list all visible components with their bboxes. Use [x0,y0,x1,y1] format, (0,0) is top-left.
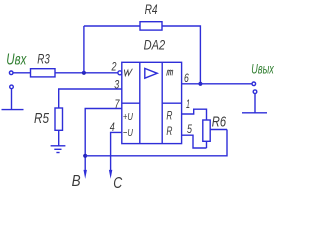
svg-text:R3: R3 [37,52,50,67]
wire pin 1 to R6 top [182,109,207,120]
wire input ground [11,89,13,110]
svg-text:2: 2 [111,60,117,74]
resistor R4 [140,22,162,30]
svg-text:5: 5 [187,122,192,136]
wire R6 bottom lead [206,141,208,148]
resistor R3 [31,69,56,77]
svg-text:R5: R5 [34,110,50,127]
svg-text:Uвх: Uвх [6,51,27,68]
input ground terminal [10,85,14,89]
ground under R5 bar1 [51,145,66,147]
arrow to C [109,170,112,179]
svg-text:1: 1 [186,97,190,111]
svg-text:С: С [113,175,122,191]
svg-text:−U: −U [123,127,133,139]
op-amp DA2 body [122,62,182,143]
svg-text:4: 4 [110,120,115,134]
svg-text:В: В [72,173,81,190]
svg-text:R4: R4 [145,2,158,17]
wire R5 bottom lead [58,130,60,146]
output ground bar [242,112,267,114]
wire pin 4 minus supply [111,132,122,171]
op-amp DA2 left column divider [139,62,141,143]
svg-text:DA2: DA2 [144,38,166,53]
svg-text:Uвых: Uвых [251,61,274,77]
ground under R5 bar2 [54,148,61,150]
wire input terminal to R3 [13,72,30,74]
node rail junction [83,154,87,158]
svg-text:R: R [166,110,172,122]
wire feedback left vertical [83,26,85,73]
op-amp DA2 right column divider [161,62,163,143]
wire R6 wiper [210,129,227,131]
output terminal XS2 [252,82,256,86]
ground under R5 bar3 [56,152,59,154]
wire pin 3 from R5 [59,89,122,108]
input terminal XS1 [9,71,13,75]
arrow to B [84,170,87,179]
resistor R6 [203,120,210,141]
svg-text:R: R [166,126,172,138]
wire pin 5 to R6 bottom [182,135,207,148]
svg-text:6: 6 [184,71,189,85]
wire R4 right [162,26,200,84]
wire R4 left [84,25,140,27]
symbol W in main field [124,69,132,76]
symbol m in right field [167,70,173,76]
amplifier triangle [145,68,157,78]
input ground bar [2,109,24,111]
wire balance rail [85,130,227,156]
wire pin 6 output [182,83,252,85]
op-amp right column cell line [162,102,181,104]
op-amp left column cell line [122,102,140,104]
svg-text:3: 3 [114,77,119,91]
wire R3 to pin 2 [55,72,118,74]
output ground terminal [253,90,257,94]
resistor R5 [55,108,63,130]
svg-text:+U: +U [123,111,133,123]
wire output ground [254,94,256,113]
svg-text:R6: R6 [212,113,227,130]
node output junction [198,82,202,86]
inversion bubble pin 2 [118,71,122,75]
node feedback-input junction [82,71,86,75]
wire pin 7 plus supply [85,109,122,172]
